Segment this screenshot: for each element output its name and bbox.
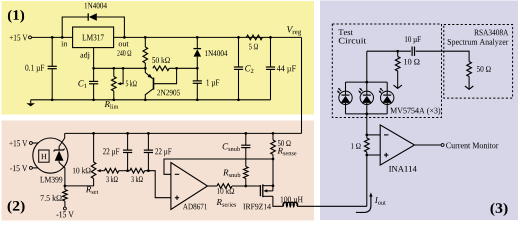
wire: +15V to LM317 in [32, 36, 73, 38]
INA114 noninverting input wire [367, 154, 380, 156]
snubber Csnub [245, 133, 247, 145]
wire sense node down to FET source [272, 159, 274, 186]
ground rail of region 1 [31, 99, 271, 101]
LM399 anode wire down [59, 161, 65, 186]
+15 V input terminal [10, 35, 28, 41]
node: Csnub tap on rail [244, 132, 247, 135]
pin label out [119, 42, 129, 47]
IRF9Z14 bulk stub with arrow [266, 190, 273, 192]
region 2 background (pink) [2, 121, 315, 221]
+15V terminal of LM399 [29, 142, 32, 145]
node: 240 ohm tap [144, 36, 147, 39]
node: 1N4004 D2 tap [196, 36, 199, 39]
LM399 heater box [39, 150, 49, 162]
wiper of Rset [99, 170, 105, 172]
label 1N4004 (top) [85, 3, 107, 9]
resistor 10 ohm [397, 51, 399, 56]
label -15V bottom terminal [57, 211, 74, 217]
LM399 zener diode [55, 151, 64, 161]
node: 44uF tap [269, 36, 272, 39]
label (3) [491, 203, 508, 216]
resistor Rseries 10k [217, 184, 232, 189]
ground arrow below 10 ohm [394, 85, 402, 88]
node: 22uF no.1 tap on rail [126, 132, 129, 135]
resistor 240 ohm [144, 37, 146, 47]
inverting input feedback wire [164, 159, 273, 174]
protection loop wires [62, 17, 88, 37]
snubber Rsnub [244, 167, 249, 179]
transistor Q1 2N2905 emitter [145, 68, 152, 78]
regulator U1 LM317 [73, 27, 114, 48]
wire: LED bottom to 1 ohm [366, 114, 368, 138]
adj pin wire [93, 48, 95, 69]
resistor 5 ohm [246, 35, 262, 40]
capacitor C2 [238, 37, 240, 67]
capacitor 0.1uF [51, 37, 53, 66]
LED array top rail [346, 81, 388, 83]
diode D1 1N4004 (points left) [89, 13, 97, 20]
label 3k #1 [106, 176, 117, 182]
potentiometer Rset 10k [93, 133, 95, 162]
ground symbol [30, 100, 32, 103]
Iout annotation arrow [356, 195, 371, 213]
LED D4 MV5754A [366, 82, 368, 95]
node: Rsense tap on rail [272, 132, 275, 135]
capacitor 22uF #1 [127, 133, 129, 150]
label 5 kOhm [126, 80, 137, 86]
op-amp U3 AD8671 [171, 163, 208, 210]
region 2 reference rail [65, 132, 302, 134]
label 2N2905 [157, 90, 180, 96]
node: C2 tap [237, 36, 240, 39]
node: Rset tap on rail [92, 132, 95, 135]
region 3 background (lavender) [320, 1, 518, 221]
op-amp output wire [208, 185, 218, 187]
resistor 7.5k [64, 186, 66, 190]
capacitor 10uF [411, 47, 413, 56]
LM399 cathode wire to rail [59, 133, 65, 150]
pin label in [61, 41, 67, 46]
filter line: wiper through 3k resistors [105, 168, 119, 173]
bulk-source tie [272, 186, 274, 191]
dashed box: RSA3408A Spectrum Analyzer [444, 25, 513, 99]
IRF9Z14 drain stub [263, 195, 273, 197]
LED array bottom rail [346, 113, 388, 115]
LED feed wire down [366, 51, 368, 82]
wire: LED feed to 10uF [367, 50, 411, 52]
node: 22uF no.2 tap on rail [147, 132, 150, 135]
resistor 50k [153, 66, 169, 71]
capacitor 44uF [270, 37, 272, 67]
transistor Q1 base wire [154, 68, 177, 83]
wire: LM317 out rail to Vreg corner [114, 36, 302, 38]
voltage reference U2 LM399 circle [33, 138, 68, 173]
region 1 background (yellow) [2, 1, 315, 115]
output: Current Monitor [415, 144, 442, 146]
resistor 1 ohm [365, 138, 370, 152]
diode D2 1N4004 (points up) [196, 37, 198, 48]
label MV5754A x3 [390, 107, 440, 115]
label (2) [8, 201, 25, 214]
node: LM399 anode junction [64, 185, 67, 188]
node: gate/snubber junction [244, 185, 247, 188]
transistor Q2 IRF9Z14 gate bar [259, 185, 261, 196]
adj horizontal rail [94, 67, 146, 69]
capacitor 22uF #2 [147, 133, 149, 150]
pin label adj [80, 52, 89, 59]
sense resistor 50 ohm [272, 133, 274, 140]
INA114 inverting input wire [367, 134, 380, 136]
node: 0.1uF tap [51, 36, 54, 39]
ground arrow below 50 ohm [465, 86, 473, 89]
capacitor 1uF [196, 68, 198, 81]
node: diode loop right [123, 36, 126, 39]
op-amp U4 INA114 [380, 125, 414, 165]
wiper of Rlim [120, 68, 124, 83]
LED D3 MV5754A [345, 82, 347, 95]
label Rlim [105, 101, 110, 107]
resistor 50 ohm (analyzer) [467, 62, 472, 77]
transistor Q1 collector [145, 89, 153, 100]
label (1) [8, 10, 24, 23]
potentiometer Rlim 5k [113, 68, 115, 76]
LED D5 MV5754A [386, 82, 388, 95]
capacitor C1 [93, 68, 95, 81]
inductor 100uH [283, 202, 297, 206]
wire: 10uF to analyzer 50 ohm [416, 51, 470, 61]
node: diode loop left [61, 36, 64, 39]
IRF9Z14 source stub [263, 185, 273, 187]
label Vreg [287, 26, 293, 32]
node: 10 ohm tap [396, 50, 399, 53]
node: filter junction 2 [147, 169, 150, 172]
transistor Q1 base bar [153, 78, 155, 90]
dashed box: Test Circuit [332, 24, 441, 118]
label 3k #2 [131, 176, 142, 182]
-15V terminal of LM399 [29, 166, 32, 169]
drain wire down [273, 196, 284, 206]
wire: Vreg drop into region 2 [301, 37, 303, 133]
label LM399 [40, 177, 62, 183]
IRF9Z14 channel bar [262, 184, 264, 197]
node: filter junction 1 [126, 169, 129, 172]
